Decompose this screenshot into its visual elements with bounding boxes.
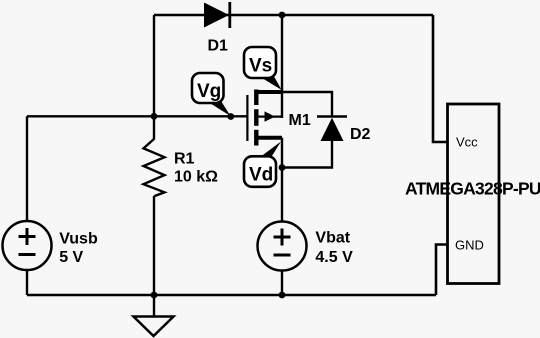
wire top rail drop to R1 xyxy=(153,15,155,140)
svg-text:GND: GND xyxy=(455,238,484,253)
svg-text:Vbat: Vbat xyxy=(315,230,350,247)
callout label Vs xyxy=(244,47,282,90)
callout label Vd xyxy=(244,142,281,187)
diode D2 xyxy=(317,117,347,142)
wire gate (Vg net) xyxy=(27,115,247,117)
wire right drop to Vcc pin xyxy=(433,15,448,142)
resistor R1 zigzag xyxy=(144,139,165,196)
svg-text:4.5 V: 4.5 V xyxy=(315,249,353,266)
wire Vusb top xyxy=(26,116,28,221)
wire source to D2 xyxy=(282,92,332,117)
node junction top rail / Vs xyxy=(279,12,286,19)
svg-text:Vg: Vg xyxy=(197,81,221,102)
svg-text:D1: D1 xyxy=(208,38,229,55)
callout label Vg xyxy=(192,73,231,116)
wire bottom rail xyxy=(27,294,436,296)
wire GND pin to bottom rail xyxy=(436,245,448,296)
node ground / bottom rail junction xyxy=(151,292,158,299)
wire R1 to bottom rail xyxy=(153,196,155,295)
svg-text:R1: R1 xyxy=(174,151,195,168)
svg-text:Vd: Vd xyxy=(249,165,273,186)
source Vusb xyxy=(3,221,52,270)
wire Vusb bottom xyxy=(26,270,28,295)
svg-text:Vusb: Vusb xyxy=(59,230,98,247)
wire drain to Vbat xyxy=(281,138,283,222)
wire D2 to Vd xyxy=(282,141,332,168)
svg-text:M1: M1 xyxy=(289,112,311,129)
wire source vertical (Vs net) xyxy=(281,15,283,118)
svg-text:ATMEGA328P-PU: ATMEGA328P-PU xyxy=(405,179,540,199)
node gate / R1 junction xyxy=(151,113,158,120)
source Vbat xyxy=(258,222,307,271)
wire Vbat bottom xyxy=(281,271,283,296)
node Vg probe point xyxy=(227,113,234,120)
ground xyxy=(134,295,174,336)
transistor M1 (MOSFET) xyxy=(247,90,282,146)
svg-text:Vs: Vs xyxy=(249,56,272,77)
IC U1 ATMEGA328P-PU box xyxy=(448,104,500,284)
diode D1 xyxy=(204,2,230,28)
svg-text:D2: D2 xyxy=(350,126,371,143)
node Vbat / bottom rail junction xyxy=(279,292,286,299)
svg-text:10 kΩ: 10 kΩ xyxy=(174,169,218,186)
node Vd junction xyxy=(279,164,286,171)
svg-text:5 V: 5 V xyxy=(59,249,83,266)
svg-text:Vcc: Vcc xyxy=(456,135,478,150)
wire top rail xyxy=(154,14,433,16)
